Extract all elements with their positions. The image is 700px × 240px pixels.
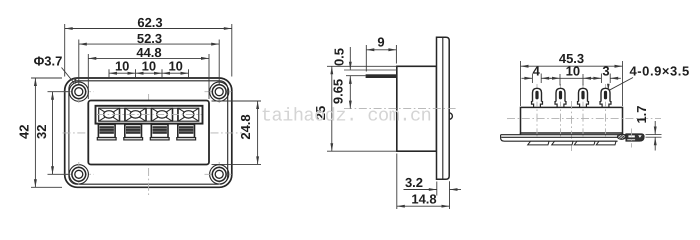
- recess rectangle: [88, 101, 209, 165]
- solder lug pin 2 slot: [559, 91, 562, 100]
- dim 45.3: [521, 65, 623, 67]
- centerline: screw hole top-right cross: [218, 82, 220, 103]
- centerline: front view vertical main axis: [148, 94, 150, 197]
- button divider 1: [120, 108, 125, 121]
- dim 32 extension lines: [48, 91, 71, 93]
- push button 4 diagonals: [178, 108, 199, 121]
- top view: base plate rivet (hatched ellipse): [617, 134, 625, 139]
- push button 2 square: [125, 108, 146, 121]
- solder lug pin 2: [556, 88, 565, 101]
- spring clip 4 pedestal: [177, 138, 196, 140]
- side view: terminal pin: [366, 74, 397, 78]
- spring clip 3 body: [151, 124, 168, 137]
- dim 25: [331, 66, 333, 151]
- dim 52.3 extension lines: [78, 40, 80, 85]
- dim 42: [34, 78, 36, 187]
- svg-text:32: 32: [34, 125, 49, 139]
- centerline: screw hole bottom-left cross: [78, 162, 80, 186]
- svg-text:10: 10: [168, 59, 182, 74]
- mounting foot 4: [596, 141, 616, 145]
- mounting foot 2: [552, 141, 573, 145]
- solder lug pin 4: [601, 88, 610, 101]
- front view: terminal plate outer outline: [65, 78, 232, 187]
- solder lug pin 1 slot: [535, 91, 538, 100]
- svg-text:4-0.9×3.5: 4-0.9×3.5: [630, 64, 690, 79]
- side view: body top extension line: [327, 65, 397, 67]
- push button 4 square: [178, 108, 199, 121]
- svg-text:42: 42: [17, 125, 32, 139]
- front view: plate inner chamfer outline: [69, 81, 228, 184]
- dim 14.8: [397, 205, 450, 207]
- centerline: front view horizontal main axis: [63, 132, 243, 134]
- push button 2 diagonals: [125, 108, 146, 121]
- svg-text:1.7: 1.7: [634, 105, 649, 123]
- button strip housing: [96, 106, 203, 124]
- top view: body: [521, 107, 623, 133]
- side view: flange plate: [437, 37, 450, 179]
- dim 3.2 extension lines: [436, 182, 438, 196]
- push button 3 square: [152, 108, 173, 121]
- centerline: pin 4 axis: [605, 84, 607, 139]
- button divider 3: [173, 108, 178, 121]
- push button 1 square: [99, 108, 120, 121]
- spring clip 3 hatch: [153, 126, 167, 134]
- spring clip 1 body: [98, 124, 115, 137]
- dim 1.7 extension lines: [646, 134, 662, 136]
- solder lug pin 3 slot: [581, 91, 584, 100]
- centerline: button row axis overlay: [97, 114, 202, 116]
- side view: pin top extension line: [344, 69, 397, 71]
- centerline: top view horizontal axis: [507, 118, 661, 120]
- dim 62.3: [65, 28, 232, 30]
- dim 62.3 extension lines: [64, 24, 66, 77]
- svg-text:62.3: 62.3: [137, 15, 162, 30]
- top view: base plate left end: [501, 135, 618, 142]
- svg-text:3: 3: [602, 64, 609, 79]
- mounting foot 1: [528, 141, 549, 145]
- dim 10 (1): [109, 72, 136, 74]
- spring clip 2 hatch: [126, 126, 140, 134]
- push button 4 center oval: [183, 111, 194, 118]
- dim 4: [522, 77, 533, 79]
- push button 3 center oval: [157, 111, 168, 118]
- dim 1.7: [654, 121, 656, 135]
- screw hole boss rings: [69, 82, 88, 101]
- mounting foot 3: [574, 141, 595, 145]
- dim 10 (2): [136, 72, 163, 74]
- dim 0.5: [349, 47, 351, 70]
- svg-text:9: 9: [377, 35, 384, 50]
- solder lug pin 4 slot: [604, 91, 607, 100]
- dim 25 extension line bottom: [327, 150, 397, 152]
- solder lug pin 1: [533, 88, 542, 101]
- spring clip 4 hatch: [179, 126, 193, 134]
- centerline: top view vertical axis: [571, 101, 573, 151]
- svg-text:taihaodz. com.cn: taihaodz. com.cn: [261, 106, 431, 127]
- centerline: screw hole top-left cross: [78, 82, 80, 103]
- spring clip 2 pedestal: [124, 138, 143, 140]
- dim 45.3 extension lines: [520, 61, 522, 106]
- centerline: right end block axis: [631, 129, 633, 148]
- dim 14.8 extension line: [396, 154, 398, 210]
- centerline: screw hole bottom row stubs: [64, 173, 94, 175]
- push button 3 diagonals: [152, 108, 173, 121]
- svg-text:3.2: 3.2: [405, 175, 423, 190]
- svg-text:10: 10: [142, 59, 156, 74]
- centerline: front view button row axis: [90, 114, 205, 116]
- svg-text:52.3: 52.3: [137, 31, 162, 46]
- svg-text:14.8: 14.8: [411, 191, 436, 206]
- dim 52.3: [79, 43, 219, 45]
- dim 4/10/3 ticks: [531, 74, 533, 84]
- top view: right end block: [626, 134, 644, 141]
- screw hole top-left (d3.7): [72, 85, 86, 99]
- push button 1 diagonals: [99, 108, 120, 121]
- dim 44.8: [88, 57, 209, 59]
- screw hole top-right (d3.7): [212, 85, 226, 99]
- centerline: screw hole top row stubs: [64, 91, 94, 93]
- spring clip 4 body: [178, 124, 195, 137]
- side view: solder bump: [449, 113, 452, 119]
- top view: body side edges extended to plate: [520, 133, 522, 135]
- svg-text:10: 10: [115, 59, 129, 74]
- dim 3: [591, 77, 601, 79]
- svg-text:0.5: 0.5: [332, 48, 347, 66]
- svg-text:9.65: 9.65: [331, 79, 346, 104]
- spring clip 1 pedestal: [97, 138, 116, 140]
- dim 32: [52, 92, 54, 175]
- dim 10 (3): [162, 72, 189, 74]
- svg-text:4: 4: [533, 64, 541, 79]
- screw hole bottom-right (d3.7): [212, 167, 226, 181]
- dim 24.8: [257, 101, 259, 164]
- push button 1 center oval: [104, 111, 115, 118]
- spring clip 1 hatch: [100, 126, 114, 134]
- centerline: pin 1 axis: [536, 84, 538, 139]
- side view: body: [397, 66, 437, 151]
- centerline: pin 3 axis: [582, 84, 584, 139]
- dim 9 extension lines: [365, 45, 367, 72]
- svg-text:10: 10: [566, 64, 580, 79]
- centerline: pin 2 axis: [560, 84, 562, 139]
- spring clip 2 body: [125, 124, 142, 137]
- dim 3.2: [404, 189, 437, 191]
- dim 10: [550, 77, 560, 79]
- top view: base plate top edges: [501, 135, 626, 138]
- dim 44.8 extension lines: [87, 54, 89, 99]
- svg-text:24.8: 24.8: [238, 114, 253, 139]
- centerline: screw hole bottom-right cross: [218, 162, 220, 186]
- side view: pin left extension line: [346, 75, 366, 77]
- spring clip 3 pedestal: [150, 138, 169, 140]
- dim 24.8 extension lines: [212, 100, 262, 102]
- screw hole bottom-left (d3.7): [72, 167, 86, 181]
- dim 42 extension lines: [31, 77, 62, 79]
- svg-text:Φ3.7: Φ3.7: [34, 54, 63, 69]
- push button 2 center oval: [130, 111, 141, 118]
- solder lug pin 3: [579, 88, 588, 101]
- button divider 2: [146, 108, 151, 121]
- side view: flange inner line: [442, 37, 444, 179]
- dim 10x3 ticks: [108, 69, 110, 77]
- centerline: side view horizontal axis: [344, 108, 457, 110]
- dim 9: [366, 49, 396, 51]
- dim 9.65: [349, 76, 351, 109]
